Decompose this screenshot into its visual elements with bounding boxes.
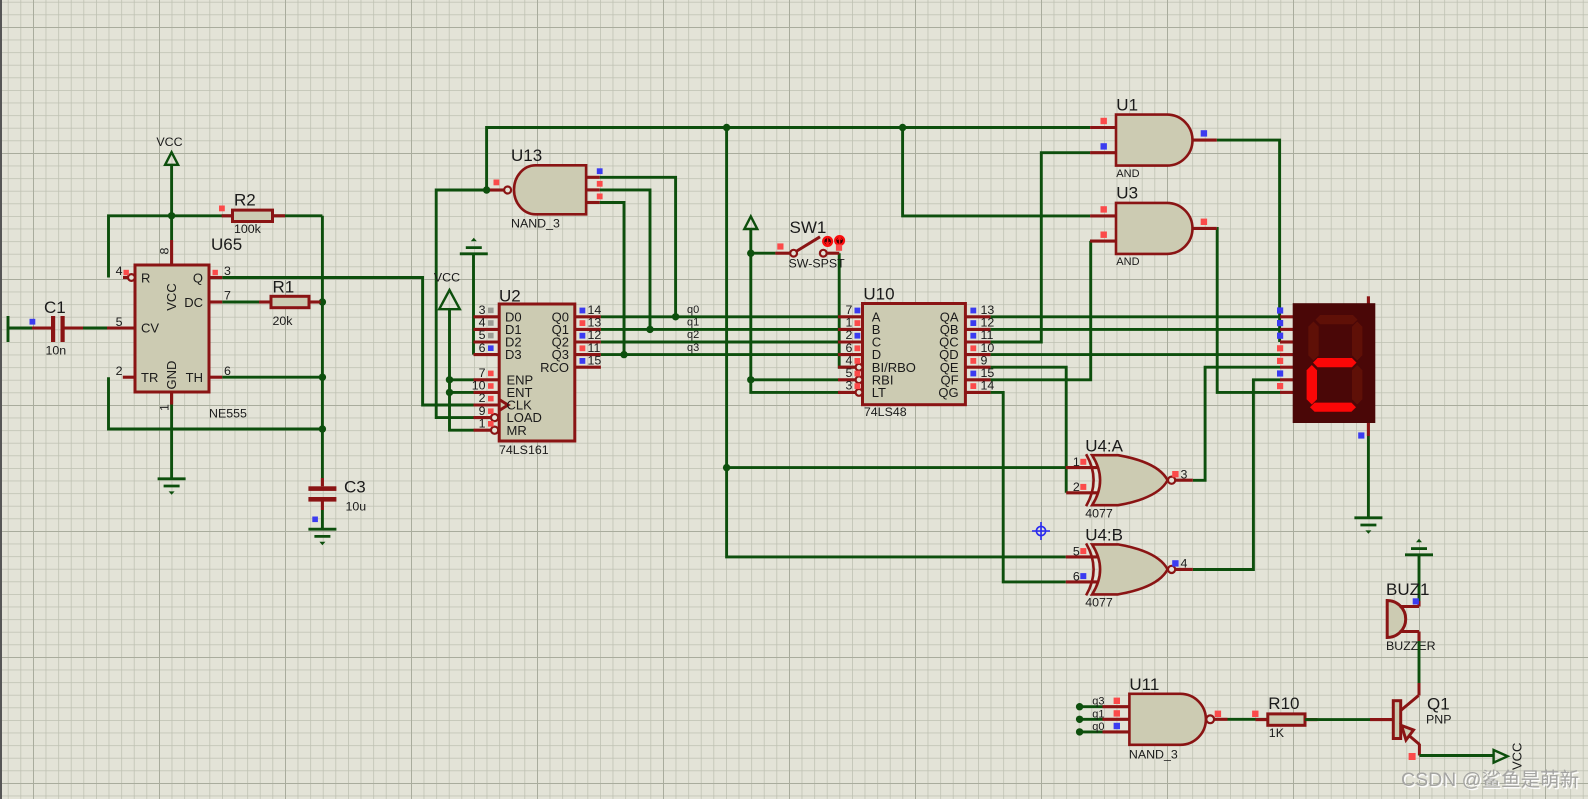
display 7-segment: [1277, 296, 1375, 423]
svg-text:74LS161: 74LS161: [499, 443, 549, 457]
svg-text:U13: U13: [511, 146, 542, 165]
wire net q0: [601, 315, 838, 318]
svg-text:15: 15: [588, 353, 602, 367]
wire display common to ground: [1367, 423, 1370, 436]
junction top rail / U3 feed: [899, 124, 906, 131]
svg-text:TH: TH: [186, 370, 203, 385]
svg-text:DC: DC: [184, 295, 203, 310]
svg-text:q0: q0: [1092, 721, 1104, 733]
wire q0 terminal to U11: [1080, 730, 1103, 733]
svg-text:GND: GND: [164, 361, 179, 390]
buzzer BUZ1: [1386, 580, 1436, 653]
junction q0 terminal: [1076, 728, 1083, 735]
IC U65 NE555 timer: [116, 235, 247, 421]
wire VCC/R2 top loop to 555 reset: [109, 216, 323, 278]
junction bottom loop: [319, 425, 326, 432]
svg-text:R: R: [141, 270, 150, 285]
power VCC (SW1): [744, 216, 757, 229]
svg-text:q0: q0: [687, 304, 699, 316]
svg-text:3: 3: [845, 379, 852, 393]
wire net q3: [601, 353, 838, 356]
switch SW1 SW-SPST: [775, 218, 845, 270]
svg-text:D3: D3: [505, 347, 522, 362]
wire VCC to SW1 / RBI / LT: [751, 229, 838, 393]
wire C1 to CV: [83, 327, 107, 330]
wire TH to vertical: [222, 376, 322, 379]
svg-text:q3: q3: [1092, 696, 1104, 708]
svg-text:7: 7: [224, 289, 231, 303]
svg-text:6: 6: [479, 341, 486, 355]
resistor R10: [1256, 694, 1318, 740]
wire R2 right vertical to R1/TH/C3: [321, 216, 324, 478]
IC U10 74LS48 decoder: [838, 285, 994, 420]
wire U4:B output to display pin f: [1193, 380, 1280, 570]
svg-text:R10: R10: [1268, 694, 1299, 713]
wire VCC to 555 pin 8: [170, 216, 173, 240]
svg-text:1: 1: [158, 404, 172, 411]
wire C3 to ground: [321, 510, 324, 529]
ground (555 pin1): [158, 479, 186, 495]
svg-text:BUZ1: BUZ1: [1386, 580, 1429, 599]
wire buzzer top to flipped ground: [1418, 556, 1421, 601]
junction q3 terminal: [1076, 703, 1083, 710]
wire net q1: [601, 328, 838, 331]
junction VCC top loop: [168, 212, 175, 219]
svg-text:U1: U1: [1116, 96, 1138, 115]
svg-text:U4:B: U4:B: [1085, 526, 1123, 545]
origin marker (blue crosshair): [1032, 522, 1050, 540]
svg-text:NE555: NE555: [209, 407, 247, 421]
wire R10 to Q1 base: [1305, 718, 1370, 721]
wire C1 left terminal stub: [7, 316, 10, 342]
wire top rail to U3 input1: [903, 128, 1091, 216]
junction TH: [319, 374, 326, 381]
svg-text:R1: R1: [273, 278, 295, 297]
ground (C3): [308, 529, 336, 545]
svg-text:2: 2: [116, 364, 123, 378]
svg-text:Q: Q: [193, 270, 203, 285]
wire 555 GND pin to ground: [170, 392, 173, 478]
wire 555 Q output to U2 CLK: [222, 278, 473, 406]
wire TR to bottom loop: [109, 377, 323, 429]
svg-text:q1: q1: [1092, 708, 1104, 720]
gate U1 AND: [1090, 96, 1217, 180]
svg-text:BUZZER: BUZZER: [1386, 639, 1436, 653]
gate U3 AND: [1090, 184, 1217, 268]
gate U4:B XNOR 4077: [1066, 526, 1193, 610]
svg-text:VCC: VCC: [164, 283, 179, 310]
wire U11 output to R10: [1228, 718, 1268, 721]
svg-text:2: 2: [1073, 480, 1080, 494]
svg-text:CSDN @鲨鱼是萌新: CSDN @鲨鱼是萌新: [1401, 769, 1579, 791]
wire QG to U4:B input2: [991, 392, 1066, 582]
svg-text:10u: 10u: [346, 500, 367, 514]
resistor R1: [259, 278, 321, 329]
junction top rail / U4 feed: [723, 124, 730, 131]
wire QF to U3 input2: [991, 241, 1091, 380]
svg-text:SW1: SW1: [790, 218, 827, 237]
svg-text:NAND_3: NAND_3: [1129, 747, 1178, 761]
wire VCC to U2 ENP/ENT/MR: [450, 309, 474, 430]
resistor R2: [219, 191, 285, 237]
wire Q1 emitter to VCC: [1419, 754, 1493, 757]
power VCC (U2): [434, 271, 460, 310]
svg-text:R2: R2: [234, 191, 256, 210]
svg-text:q3: q3: [687, 342, 699, 354]
wire U13 input3 to q3: [600, 203, 624, 355]
junction R1 right: [319, 298, 326, 305]
junction q0/U13: [672, 313, 679, 320]
svg-text:4: 4: [116, 264, 123, 278]
svg-text:U2: U2: [499, 287, 521, 306]
wire DC through R1 to vertical: [222, 301, 322, 304]
svg-text:NAND_3: NAND_3: [511, 217, 560, 231]
wire QC to U1 input2: [991, 153, 1091, 342]
wire VCC symbol stem: [170, 165, 173, 216]
wire QB to display pin b: [991, 328, 1280, 331]
svg-text:VCC: VCC: [434, 271, 460, 285]
junction q1/U13: [646, 326, 653, 333]
wire top rail down to U4:A.1 / U4:B.5: [727, 128, 1066, 557]
svg-text:4077: 4077: [1085, 596, 1113, 610]
junction q3/U13: [620, 351, 627, 358]
svg-text:5: 5: [116, 315, 123, 329]
power VCC (right, rotated): [1494, 743, 1525, 770]
wire U4:A output to display pin e: [1193, 367, 1280, 480]
svg-text:8: 8: [158, 247, 172, 254]
wire QE to U4:A input2: [991, 367, 1067, 493]
svg-text:C3: C3: [344, 478, 366, 497]
svg-text:4: 4: [1181, 557, 1188, 571]
junction SW1 feed: [747, 250, 754, 257]
junction RBI feed: [747, 376, 754, 383]
junction U4:A input feed: [723, 464, 730, 471]
svg-text:4077: 4077: [1085, 506, 1113, 520]
svg-text:TR: TR: [141, 370, 158, 385]
svg-text:q1: q1: [687, 317, 699, 329]
svg-text:20k: 20k: [273, 314, 294, 328]
svg-text:AND: AND: [1116, 168, 1139, 180]
ground (display): [1354, 518, 1382, 534]
wire QA to display pin a: [991, 315, 1280, 318]
svg-text:U3: U3: [1116, 184, 1138, 203]
wire U3 output to display pin g: [1217, 228, 1280, 392]
wire buzzer to Q1 collector: [1418, 641, 1421, 683]
IC U2 74LS161 counter: [472, 287, 602, 458]
svg-text:U11: U11: [1129, 675, 1159, 694]
junction ENT: [446, 389, 453, 396]
junction q1 terminal: [1076, 716, 1083, 723]
gate U4:A XNOR 4077: [1066, 436, 1193, 520]
svg-text:SW-SPST: SW-SPST: [789, 256, 846, 270]
svg-text:U4:A: U4:A: [1085, 436, 1123, 455]
svg-text:U10: U10: [863, 285, 894, 304]
wire U13 output to top rail and U2 LOAD: [487, 128, 1091, 191]
wire SW1 to U10 BI/RBO: [839, 253, 855, 367]
wire D0-D3 tie to ground: [472, 254, 475, 355]
transistor Q1 PNP: [1370, 683, 1451, 756]
capacitor C3: [308, 478, 366, 523]
wire q1 terminal to U11: [1080, 718, 1103, 721]
svg-text:100k: 100k: [234, 222, 262, 236]
svg-text:VCC: VCC: [156, 135, 182, 149]
capacitor C1: [30, 298, 136, 358]
svg-text:1: 1: [479, 416, 486, 430]
watermark CSDN: [1401, 769, 1580, 793]
ground (buzzer, flipped): [1405, 539, 1433, 555]
svg-text:1K: 1K: [1269, 726, 1285, 740]
wire U13 input1 to q0: [600, 177, 676, 316]
junction ENP: [446, 376, 453, 383]
wire QD to display pin d: [991, 353, 1280, 356]
wire U13 input2 to q1: [600, 190, 650, 330]
svg-text:U65: U65: [211, 235, 242, 254]
ground (U2 data inputs, flipped): [460, 238, 488, 254]
wire net q2: [601, 341, 838, 344]
gate U13 NAND_3: [490, 146, 603, 231]
svg-text:AND: AND: [1116, 256, 1139, 268]
svg-text:C1: C1: [44, 298, 66, 317]
junction U13 output: [483, 186, 490, 193]
svg-text:1: 1: [1073, 455, 1080, 469]
gate U11 NAND_3: [1092, 675, 1227, 762]
svg-text:10n: 10n: [46, 344, 67, 358]
svg-text:QG: QG: [938, 385, 958, 400]
svg-text:LT: LT: [872, 385, 886, 400]
svg-text:VCC: VCC: [1510, 743, 1525, 770]
wire U1 output to display pin c: [1217, 140, 1280, 342]
svg-text:Q1: Q1: [1427, 695, 1450, 714]
wire q3 terminal to U11: [1080, 705, 1103, 708]
svg-text:RCO: RCO: [540, 360, 569, 375]
svg-text:MR: MR: [507, 423, 527, 438]
svg-text:CV: CV: [141, 321, 159, 336]
svg-text:5: 5: [1073, 544, 1080, 558]
wire C1 left lead: [8, 327, 32, 330]
svg-text:6: 6: [224, 364, 231, 378]
svg-text:q2: q2: [687, 329, 699, 341]
svg-text:74LS48: 74LS48: [864, 405, 907, 419]
power VCC (555): [156, 135, 182, 165]
svg-text:PNP: PNP: [1426, 713, 1451, 727]
svg-text:3: 3: [1181, 467, 1188, 481]
svg-text:3: 3: [224, 264, 231, 278]
svg-text:6: 6: [1073, 569, 1080, 583]
